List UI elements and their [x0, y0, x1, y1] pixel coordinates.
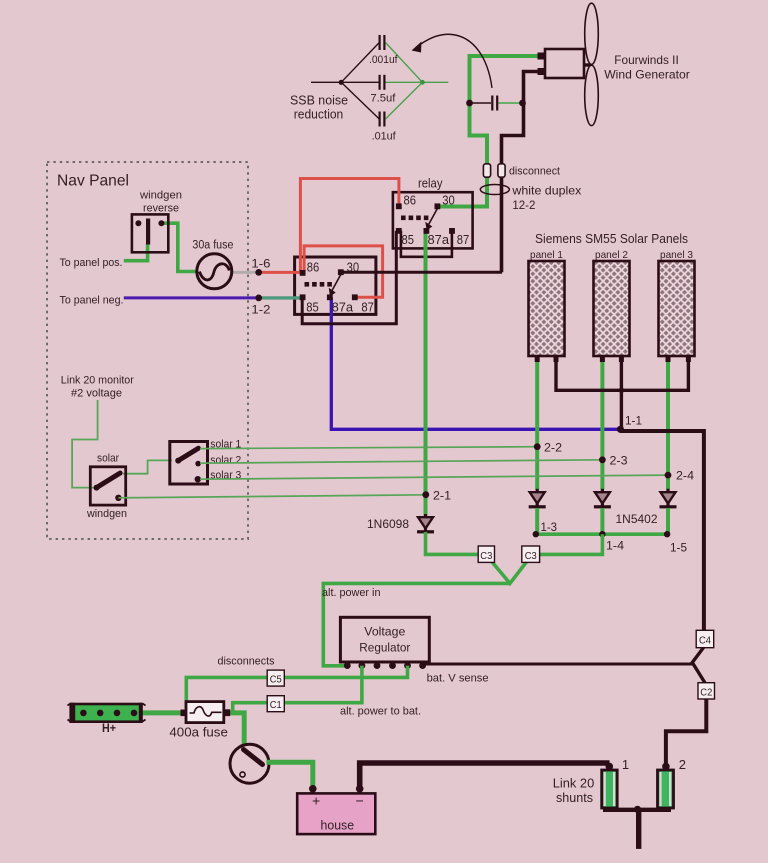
- wire: green 400a fuse to battery switch: [227, 713, 244, 746]
- svg-text:2-1: 2-1: [433, 491, 451, 503]
- wire: gray fuse to 1-6: [231, 271, 259, 274]
- 30a fuse circle: [197, 254, 232, 289]
- svg-text:.01uf: .01uf: [372, 131, 397, 143]
- battery switch small o: [240, 772, 245, 777]
- wire: thin green solar 1 line to node 2-2: [200, 447, 537, 449]
- svg-text:1-4: 1-4: [606, 541, 625, 553]
- solar selector contact solar3: [195, 476, 201, 482]
- panel 3 positive stub: [666, 356, 671, 362]
- wire: thin green solar 3 line to node 2-4: [200, 475, 668, 479]
- propeller blade upper: [585, 3, 599, 64]
- wire: green panel 2 positive down to diode: [600, 361, 604, 490]
- 400a fuse right terminal: [223, 709, 230, 716]
- svg-text:C5: C5: [270, 675, 282, 686]
- svg-text:1-5: 1-5: [670, 543, 687, 555]
- house battery - terminal: [356, 785, 364, 793]
- wire: dark panel 2 negative down to node 1-1: [620, 356, 623, 429]
- wire: green panel 1 positive down to diode: [535, 361, 539, 490]
- wire: link between switches: [123, 460, 172, 473]
- svg-text:7.5uf: 7.5uf: [370, 93, 396, 105]
- windgen reverse switch right contact: [158, 220, 164, 226]
- svg-text:#2 voltage: #2 voltage: [71, 388, 122, 400]
- junction panel bus: [619, 388, 625, 394]
- solar/windgen switch box: [90, 467, 125, 505]
- svg-text:2-3: 2-3: [610, 456, 628, 468]
- svg-text:windgen: windgen: [139, 190, 182, 202]
- solar panel 1: [529, 261, 565, 356]
- node 2-3: [599, 456, 606, 463]
- connector C1: [267, 696, 284, 712]
- diode D3 (panel 3): [660, 489, 677, 510]
- svg-text:1N5402: 1N5402: [616, 512, 658, 526]
- svg-text:panel 2: panel 2: [595, 249, 628, 261]
- svg-text:Fourwinds II: Fourwinds II: [614, 53, 679, 67]
- disconnect connector on green wire: [483, 164, 490, 177]
- svg-text:1-6: 1-6: [251, 259, 270, 271]
- windgen reverse switch lever: [146, 219, 150, 245]
- svg-text:+: +: [312, 793, 320, 809]
- panel 1 negative stub: [554, 356, 559, 362]
- panel 2 negative stub: [619, 356, 624, 362]
- svg-text:alt. power in: alt. power in: [322, 587, 381, 599]
- disconnect connector on dark wire: [498, 164, 505, 177]
- svg-text:1N6098: 1N6098: [367, 517, 409, 531]
- capacitor .001uf plates: [379, 35, 381, 50]
- wire: green windgen reverse switch to 30a fuse: [161, 223, 197, 271]
- svg-text:C3: C3: [480, 551, 492, 562]
- connector C2: [698, 683, 715, 699]
- svg-text:Link 20: Link 20: [553, 777, 595, 791]
- svg-text:disconnect: disconnect: [509, 166, 560, 178]
- svg-text:solar 2: solar 2: [210, 455, 241, 467]
- wire: green upper relay 87a down to 1N6098: [424, 229, 428, 516]
- wire: green V join below C3 connectors: [487, 556, 531, 583]
- connector C3b: [522, 546, 540, 562]
- 400a fuse element: [190, 707, 222, 716]
- capacitor across wind generator leads: left link: [470, 102, 491, 104]
- capacitor across wind generator leads: right link (green): [498, 102, 519, 104]
- wire: green busbar to 400a fuse: [140, 710, 184, 715]
- svg-text:solar: solar: [97, 453, 119, 465]
- node 2-1: [422, 491, 429, 498]
- diode 1N6098: [417, 514, 434, 534]
- Nav Panel dashed enclosure: [47, 162, 248, 539]
- svg-text:.001uf: .001uf: [369, 54, 398, 66]
- wire: green panel1 diode to 1-3: [535, 508, 539, 534]
- solar selector contact solar2: [195, 461, 201, 467]
- wind generator - pin: [538, 68, 546, 75]
- svg-text:87: 87: [457, 233, 470, 247]
- svg-text:bat. V sense: bat. V sense: [427, 673, 489, 685]
- busbar H+: [68, 703, 146, 723]
- svg-text:house: house: [321, 819, 355, 833]
- shunt rail junction: [634, 806, 641, 813]
- wire: thin green solar 2 line to node 2-3: [200, 460, 602, 463]
- svg-text:2-4: 2-4: [676, 471, 695, 483]
- node 1-4: [599, 531, 605, 537]
- svg-text:reduction: reduction: [294, 107, 344, 122]
- svg-text:To panel neg.: To panel neg.: [60, 295, 124, 307]
- svg-text:C3: C3: [525, 551, 537, 562]
- wire: green panel3 diode to 1-5: [666, 508, 670, 534]
- svg-text:Link 20 monitor: Link 20 monitor: [61, 375, 134, 387]
- svg-text:Voltage: Voltage: [364, 625, 405, 639]
- panel 1 positive stub: [535, 356, 540, 362]
- solar selector switch box: [170, 442, 208, 485]
- node 2-4: [665, 472, 672, 479]
- panel 2 positive stub: [600, 356, 605, 362]
- svg-text:87: 87: [361, 301, 374, 315]
- node 2-2: [534, 443, 541, 450]
- solar selector pivot: [175, 458, 181, 464]
- wire: green 1N6098 to connector C3a: [426, 532, 487, 554]
- upper relay terminal 85: [396, 228, 402, 234]
- house battery: [297, 793, 375, 834]
- connector C3a: [478, 546, 494, 562]
- junction on dark lead: [519, 100, 526, 107]
- SSB fan-out line to top capacitor: [341, 43, 379, 83]
- 400a fuse left terminal: [181, 710, 187, 717]
- wire: green bus 1-3 1-4 1-5: [536, 532, 667, 536]
- svg-text:panel 3: panel 3: [660, 249, 693, 261]
- svg-text:Wind Generator: Wind Generator: [604, 68, 690, 82]
- SSB green return from top capacitor: [386, 43, 423, 83]
- svg-text:C1: C1: [270, 700, 282, 711]
- shunt 2: [658, 770, 674, 808]
- voltage regulator pins: [344, 662, 426, 669]
- wire: dark house - to shunt 1: [360, 763, 610, 787]
- svg-text:alt. power to bat.: alt. power to bat.: [340, 706, 421, 718]
- shunt 1 terminal top: [606, 763, 614, 771]
- upper relay terminal 30: [435, 203, 441, 209]
- connector C4: [696, 630, 714, 647]
- node 1-6: [255, 269, 262, 276]
- 400a fuse box: [186, 702, 224, 723]
- upper relay coil dashes: [401, 216, 428, 221]
- SSB green node dot: [420, 80, 425, 85]
- upper relay terminal 87: [449, 228, 455, 234]
- wire: dark net lower relay 30 to windgen disconnect run: [341, 271, 502, 274]
- 30a fuse sine element: [200, 264, 230, 280]
- svg-text:30: 30: [442, 194, 455, 208]
- solar/windgen switch windgen contact: [115, 495, 121, 501]
- lower relay terminal 30: [338, 269, 344, 275]
- SSB green return from bottom capacitor: [386, 82, 423, 119]
- annotation arrow curve: [416, 34, 492, 88]
- svg-text:1-3: 1-3: [541, 522, 558, 534]
- shunt 1: [602, 770, 618, 808]
- wire: red 1-6 to lower relay 86: [259, 271, 303, 274]
- wire: thin green windgen line to node 2-1: [118, 495, 426, 498]
- SSB noise reduction network: left node stub: [311, 81, 341, 83]
- wire: green panel2 diode to 1-4: [600, 508, 604, 534]
- battery switch circle: [230, 744, 269, 783]
- wire: dark ground stub down: [636, 810, 641, 849]
- panel 3 negative stub: [686, 356, 691, 362]
- svg-text:86: 86: [404, 194, 417, 208]
- wire: green battery switch to house +: [267, 762, 313, 787]
- SSB green return middle: [386, 81, 449, 83]
- node 1-3: [533, 531, 539, 537]
- svg-text:windgen: windgen: [86, 508, 127, 520]
- diode D2 (panel 2): [594, 489, 611, 510]
- svg-text:1-1: 1-1: [625, 416, 642, 428]
- svg-text:85: 85: [306, 301, 319, 315]
- windgen reverse switch left contact: [135, 220, 141, 226]
- junction on green lead: [466, 100, 473, 107]
- svg-text:1-2: 1-2: [251, 305, 270, 317]
- capacitor .01uf plates: [379, 112, 381, 127]
- lower relay box: [295, 257, 376, 314]
- wire: wind generator - (dark) to disconnect: [502, 72, 540, 273]
- wire: green panel 3 positive down to diode: [666, 361, 670, 490]
- battery switch lever: [244, 750, 263, 765]
- svg-text:30a fuse: 30a fuse: [192, 240, 233, 252]
- svg-text:disconnects: disconnects: [218, 656, 275, 668]
- wire: dark U loop upper relay 85 to 87: [401, 231, 452, 257]
- lower relay armature arrow: [332, 275, 341, 291]
- upper relay terminal 87a: [424, 228, 430, 234]
- node 1-5: [664, 531, 670, 537]
- svg-text:−: −: [356, 793, 364, 809]
- wire: dark node 1-1 to right side drop: [620, 431, 704, 631]
- windgen reverse switch box: [132, 214, 168, 252]
- svg-text:2: 2: [679, 757, 686, 772]
- solar selector lever: [178, 448, 198, 460]
- wire: blue lower relay 87a to node 1-1: [331, 297, 619, 429]
- wire: green VR pin5 to C5 run: [186, 666, 407, 708]
- svg-text:86: 86: [307, 261, 320, 275]
- wire: red loop lower relay 87 to 86: [304, 246, 383, 297]
- diode D1 (panel 1): [529, 489, 546, 510]
- svg-text:To panel pos.: To panel pos.: [60, 257, 123, 269]
- wire: dark bat V sense VR pin6 to kink: [423, 663, 693, 666]
- svg-text:30: 30: [347, 261, 360, 275]
- SSB line to middle capacitor: [341, 81, 379, 83]
- svg-text:SSB noise: SSB noise: [290, 93, 348, 108]
- wire: green switch lever to To panel pos.: [124, 243, 148, 261]
- svg-text:C4: C4: [699, 636, 711, 647]
- upper relay box: [393, 192, 473, 248]
- lower relay coil dashes: [305, 282, 332, 287]
- wire: dark C2 down to shunt 2: [666, 699, 706, 767]
- upper relay armature arrow: [429, 209, 438, 225]
- svg-text:C2: C2: [700, 688, 712, 699]
- solar/windgen switch pivot: [94, 485, 100, 491]
- wire: dark shunt bottom rail: [603, 808, 671, 812]
- svg-text:2-2: 2-2: [544, 443, 562, 455]
- svg-text:reverse: reverse: [143, 203, 179, 215]
- wind generator + pin: [538, 53, 546, 60]
- SSB line to bottom capacitor: [341, 82, 379, 119]
- voltage regulator box: [340, 617, 429, 662]
- wire: dark kink C4 to C2: [692, 647, 705, 683]
- connector C5: [267, 670, 284, 686]
- wire: dark panel negatives bus: [556, 356, 688, 390]
- wire: green 1-4 drop to connector C3b: [531, 534, 602, 554]
- solar panel 3: [659, 261, 695, 356]
- lower relay terminal 87: [352, 294, 358, 300]
- svg-text:panel 1: panel 1: [530, 249, 563, 261]
- wire: dark upper relay 85 drop: [302, 231, 396, 324]
- wire: monitor sense line to solar/windgen switch: [72, 400, 98, 488]
- capacitor 7.5uf plates: [379, 75, 381, 90]
- svg-text:relay: relay: [418, 177, 443, 191]
- lower relay terminal 86: [300, 270, 306, 276]
- svg-text:white duplex: white duplex: [511, 184, 581, 198]
- wire: green alt power in run: [323, 583, 510, 665]
- svg-text:shunts: shunts: [556, 791, 593, 805]
- lower relay terminal 85: [300, 294, 306, 300]
- propeller blade lower: [585, 65, 599, 125]
- svg-text:12-2: 12-2: [512, 198, 535, 212]
- wire: purple To panel neg to 1-2: [124, 296, 259, 299]
- svg-text:85: 85: [402, 233, 415, 247]
- node 1-1: [617, 426, 624, 433]
- svg-text:87a: 87a: [332, 301, 354, 315]
- SSB node dot: [339, 80, 344, 85]
- wire: green VR pin2 to C1 run: [233, 666, 362, 713]
- house battery + terminal: [309, 785, 317, 793]
- wire: teal 1-2 to lower relay 85: [259, 296, 303, 299]
- svg-text:87a: 87a: [428, 233, 450, 247]
- solar panel 2: [594, 261, 630, 356]
- white duplex cable oval: [480, 185, 509, 195]
- lower relay terminal 87a: [327, 294, 333, 300]
- wire: red top run upper relay 86 to lower relay 86: [300, 179, 399, 273]
- svg-text:H+: H+: [102, 723, 116, 735]
- wind generator shaft: [584, 63, 591, 66]
- node 1-2: [255, 295, 262, 302]
- annotation arrowhead: [412, 42, 422, 53]
- svg-text:Siemens SM55 Solar Panels: Siemens SM55 Solar Panels: [535, 232, 688, 246]
- wire: wind generator + (green) to junction A: [437, 56, 539, 207]
- shunt 2 terminal top: [662, 763, 670, 771]
- capacitor plates: [491, 96, 493, 111]
- svg-text:Regulator: Regulator: [359, 641, 410, 655]
- svg-text:Nav Panel: Nav Panel: [57, 173, 129, 190]
- svg-text:400a fuse: 400a fuse: [169, 726, 228, 740]
- upper relay terminal 86: [396, 203, 402, 209]
- solar/windgen switch lever: [97, 473, 121, 488]
- wind generator body: [545, 49, 584, 78]
- svg-text:1: 1: [622, 757, 629, 772]
